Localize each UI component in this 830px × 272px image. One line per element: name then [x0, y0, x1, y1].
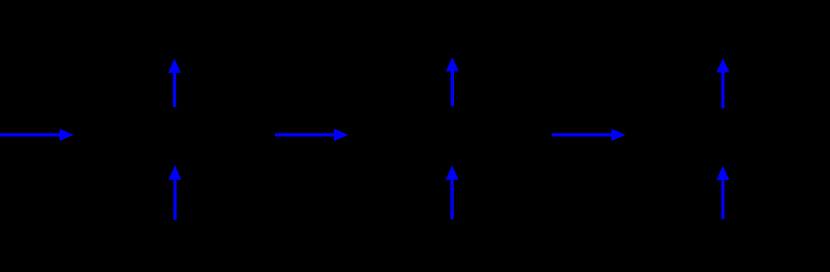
up arrow pair 3, upper — [717, 58, 730, 108]
up arrow pair 3, lower — [717, 166, 730, 220]
up arrow pair 1, lower — [169, 165, 182, 220]
up arrow pair 2, lower — [446, 165, 459, 219]
reaction arrow 1 (horizontal, left edge) — [0, 129, 74, 142]
reaction arrow 2 (horizontal, middle) — [275, 129, 348, 142]
up arrow pair 1, upper — [168, 59, 181, 108]
reaction arrow 3 (horizontal, right) — [552, 129, 626, 142]
up arrow pair 2, upper — [446, 57, 459, 106]
